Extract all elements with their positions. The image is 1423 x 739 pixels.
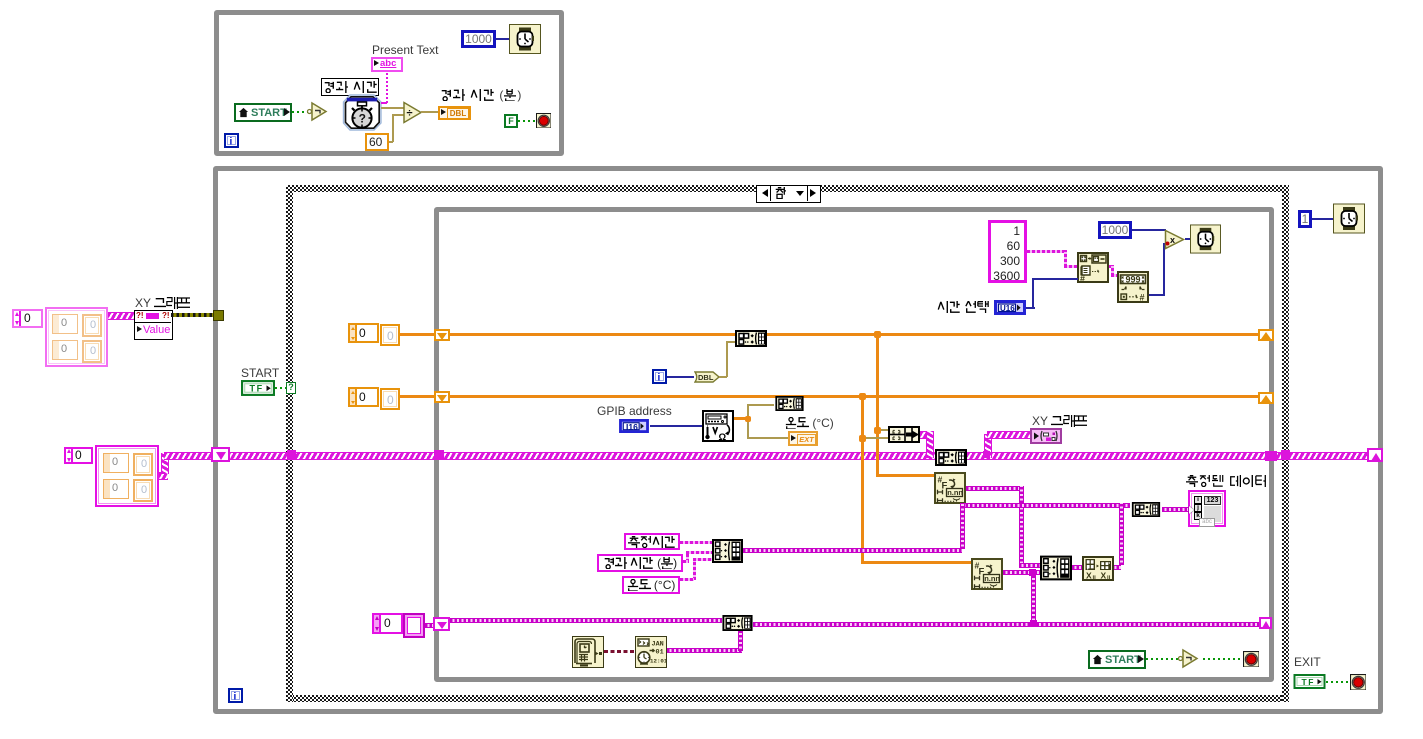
svg-text:?: ? <box>359 112 366 126</box>
svg-text:x: x <box>1170 235 1175 245</box>
svg-text:÷: ÷ <box>407 108 413 120</box>
svg-text:DBL: DBL <box>698 373 714 382</box>
